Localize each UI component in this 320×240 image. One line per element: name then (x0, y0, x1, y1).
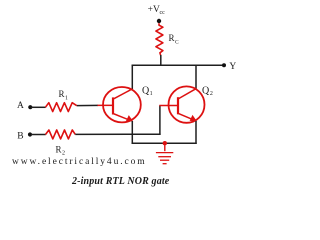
svg-text:cc: cc (160, 10, 166, 16)
wire Q2 emitter drop (195, 121, 197, 144)
wire R2 to riser (75, 133, 160, 135)
svg-text:1: 1 (65, 96, 68, 102)
label RC (169, 33, 180, 45)
svg-text:www.electrically4u.com: www.electrically4u.com (12, 157, 147, 167)
svg-text:R: R (169, 33, 175, 43)
svg-text:B: B (17, 131, 23, 141)
svg-text:Y: Y (229, 62, 236, 72)
label R2 (56, 144, 66, 156)
wire A to R1 (31, 106, 46, 108)
label Q1 (142, 85, 153, 97)
wire B to R2 (31, 134, 46, 136)
wire B riser to Q2 base (159, 105, 161, 134)
ground (156, 141, 173, 164)
wire RC bottom stub (160, 55, 162, 65)
svg-text:+V: +V (148, 5, 160, 15)
svg-text:A: A (17, 101, 24, 111)
resistor R2 (46, 130, 76, 139)
resistor RC (156, 23, 163, 55)
wire Q2 base red segment (159, 105, 178, 107)
svg-text:C: C (175, 39, 179, 45)
node Y dot (222, 63, 226, 67)
wire Q1 base red segment (98, 104, 114, 106)
svg-text:2: 2 (62, 151, 65, 157)
wire Q1 emitter drop (131, 121, 133, 144)
resistor R1 (45, 103, 76, 112)
node Vcc terminal dot (157, 19, 161, 23)
wire top rail (132, 64, 224, 66)
node A terminal dot (28, 105, 32, 109)
wire R1 to Q1 base (77, 104, 98, 106)
svg-text:R: R (56, 144, 62, 154)
wire bottom rail (132, 142, 197, 144)
svg-text:2-input RTL NOR gate: 2-input RTL NOR gate (71, 176, 170, 187)
label R1 (59, 89, 69, 102)
svg-text:Q: Q (202, 85, 210, 96)
node B terminal dot (28, 132, 32, 136)
wire Q2 collector drop (195, 65, 197, 89)
label Q2 (202, 85, 213, 97)
svg-text:2: 2 (210, 91, 213, 97)
node +Vcc label (148, 5, 166, 16)
wire Q1 collector drop (131, 65, 133, 89)
svg-text:R: R (59, 89, 65, 99)
transistor Q2 (169, 86, 205, 122)
svg-text:1: 1 (150, 91, 153, 97)
transistor Q1 (103, 87, 141, 122)
